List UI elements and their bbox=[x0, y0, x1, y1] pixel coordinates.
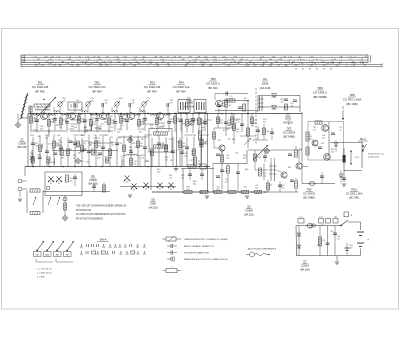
potentiometer note text bbox=[368, 153, 385, 159]
svg-text:(BA 218): (BA 218) bbox=[244, 213, 254, 216]
transistor TR2 symbol bbox=[69, 113, 76, 120]
arrow wiper 1 bbox=[33, 197, 36, 205]
tone pot arrows bbox=[350, 150, 360, 165]
component value labels bbox=[34, 118, 342, 247]
svg-text:68p: 68p bbox=[198, 163, 201, 165]
svg-text:C59: C59 bbox=[48, 144, 51, 146]
svg-text:4n7: 4n7 bbox=[313, 129, 316, 131]
oscillator coil box bbox=[68, 102, 82, 110]
svg-text:100: 100 bbox=[141, 157, 144, 159]
svg-text:C21: C21 bbox=[88, 130, 91, 132]
svg-text:(BC 548B): (BC 548B) bbox=[313, 95, 326, 99]
switch contact X5 bbox=[157, 183, 163, 191]
svg-text:10n: 10n bbox=[111, 144, 114, 146]
svg-text:R47: R47 bbox=[288, 167, 291, 169]
wire y150 right bbox=[248, 149, 302, 151]
transistor TR9 symbol bbox=[296, 163, 302, 170]
svg-text:10n: 10n bbox=[169, 177, 172, 179]
trimmer capacitor CT1 bbox=[57, 98, 66, 107]
svg-text:1k: 1k bbox=[122, 163, 124, 165]
transistor TR9a symbol bbox=[312, 140, 318, 146]
transistor TR10 symbol bbox=[324, 154, 331, 161]
svg-text:2k2: 2k2 bbox=[187, 189, 190, 191]
extra component labels bbox=[30, 115, 250, 164]
inductor detector L12 bbox=[258, 96, 264, 111]
svg-text:SK-C: SK-C bbox=[360, 137, 366, 141]
svg-text:R7: R7 bbox=[92, 118, 94, 120]
svg-text:4n7: 4n7 bbox=[188, 121, 191, 123]
svg-text:C22: C22 bbox=[177, 150, 180, 152]
wire mid rail a bbox=[30, 130, 66, 132]
svg-text:C67: C67 bbox=[105, 135, 108, 137]
svg-text:TR7: TR7 bbox=[287, 128, 292, 131]
transistor TR7 symbol bbox=[281, 172, 287, 179]
svg-text:C60: C60 bbox=[74, 127, 77, 129]
resistor R46 bbox=[226, 164, 229, 193]
switch contact X6 bbox=[168, 183, 174, 191]
detector wires bbox=[258, 96, 300, 113]
svg-text:22k: 22k bbox=[93, 124, 96, 126]
wire speaker return bbox=[344, 170, 362, 172]
wire drop x260 bbox=[263, 164, 265, 181]
svg-text:C77: C77 bbox=[317, 245, 320, 247]
ground speaker bbox=[342, 184, 346, 186]
wire vertical x151 bbox=[150, 151, 152, 191]
svg-text:4n7: 4n7 bbox=[191, 153, 194, 155]
scale numbers right bbox=[295, 69, 333, 71]
svg-text:1k: 1k bbox=[35, 120, 37, 122]
svg-text:R77: R77 bbox=[34, 129, 37, 131]
svg-text:CO 1402 B: CO 1402 B bbox=[303, 192, 315, 195]
svg-text:R64: R64 bbox=[82, 122, 85, 124]
svg-text:68p: 68p bbox=[243, 157, 246, 159]
svg-text:C22: C22 bbox=[98, 129, 101, 131]
diode D2 label bbox=[88, 175, 98, 186]
trimmer capacitor CT5 bbox=[189, 120, 195, 126]
wire vertical x182 bbox=[181, 118, 183, 167]
ceramic filter CF1 bbox=[149, 126, 172, 152]
svg-text:n15: n15 bbox=[181, 149, 184, 151]
svg-text:FM: FM bbox=[66, 254, 69, 256]
wire audio bottom rail bbox=[268, 191, 298, 193]
capacitor C39 bbox=[92, 183, 96, 192]
svg-text:(BC 548B): (BC 548B) bbox=[303, 196, 314, 199]
capacitor C52 bbox=[263, 150, 267, 162]
svg-text:TR9: TR9 bbox=[307, 189, 312, 192]
svg-text:1k: 1k bbox=[238, 121, 240, 123]
transistor TR2 label bbox=[89, 81, 106, 94]
svg-text:n15: n15 bbox=[117, 131, 120, 133]
component row 2 bbox=[31, 141, 206, 156]
svg-text:TR8: TR8 bbox=[349, 93, 355, 97]
legend brackets bbox=[36, 259, 73, 263]
svg-text:100: 100 bbox=[205, 143, 208, 145]
AM detector box bbox=[45, 172, 82, 196]
resistor R40 bbox=[184, 187, 192, 194]
svg-text:1k: 1k bbox=[340, 129, 342, 131]
svg-text:R61: R61 bbox=[183, 124, 186, 126]
wire osc vertical bbox=[301, 112, 303, 160]
capacitor C42 bbox=[180, 152, 188, 157]
transistor TR5 label bbox=[206, 77, 220, 90]
diode D6 symbol bbox=[339, 171, 343, 184]
svg-text:R42: R42 bbox=[226, 129, 229, 131]
svg-text:C73: C73 bbox=[224, 171, 227, 173]
svg-text:C55: C55 bbox=[235, 152, 238, 154]
svg-text:100: 100 bbox=[105, 102, 108, 104]
resistor R51 bbox=[294, 178, 297, 192]
svg-text:2 = M.W. (P.O.): 2 = M.W. (P.O.) bbox=[37, 273, 52, 275]
svg-text:C22: C22 bbox=[110, 127, 113, 129]
fuse box F4 bbox=[333, 217, 338, 224]
svg-text:C45: C45 bbox=[139, 132, 142, 134]
arrow wiper 3 bbox=[57, 197, 60, 205]
svg-text:100: 100 bbox=[254, 122, 257, 124]
resistor R42d bbox=[255, 190, 262, 193]
capacitor C61 bbox=[331, 133, 335, 135]
svg-text:3 = F.M.: 3 = F.M. bbox=[37, 277, 45, 279]
transistor TR6 symbol bbox=[219, 145, 225, 156]
svg-text:LE CIRCUIT EST REPRESENTE EN P: LE CIRCUIT EST REPRESENTE EN POSITION bbox=[76, 214, 126, 216]
svg-text:R41: R41 bbox=[84, 127, 87, 129]
resistor R31 bbox=[30, 211, 40, 214]
capacitor C71 bbox=[333, 226, 340, 256]
tuning gang arrow bbox=[38, 97, 56, 116]
svg-text:R15: R15 bbox=[203, 123, 206, 125]
transistor TR7 label bbox=[283, 128, 296, 139]
switch contact X2 bbox=[124, 176, 130, 184]
wire drop x238 bbox=[237, 164, 239, 193]
wire IF vertical bbox=[176, 114, 178, 167]
svg-text:C62: C62 bbox=[228, 125, 231, 127]
svg-text:10n: 10n bbox=[61, 157, 64, 159]
wire D2 row bbox=[43, 191, 110, 193]
svg-text:R24: R24 bbox=[76, 115, 79, 117]
svg-text:(BA 178): (BA 178) bbox=[17, 146, 27, 149]
capacitor C3 bbox=[74, 100, 80, 107]
svg-text:R32: R32 bbox=[80, 161, 83, 163]
svg-text:68p: 68p bbox=[193, 183, 196, 185]
legend ceramic capacitor bbox=[167, 244, 214, 248]
svg-text:C79: C79 bbox=[118, 137, 121, 139]
capacitor C34 bbox=[256, 126, 260, 140]
capacitor C50 bbox=[290, 180, 294, 182]
svg-text:C37: C37 bbox=[269, 185, 272, 187]
switch contact X3 bbox=[131, 184, 137, 192]
svg-text:C75: C75 bbox=[234, 119, 237, 121]
svg-text:47k: 47k bbox=[337, 238, 340, 240]
svg-text:CO TR2 L-M/A: CO TR2 L-M/A bbox=[343, 97, 362, 101]
svg-text:n15: n15 bbox=[281, 187, 284, 189]
svg-text:CO 1502 L-M/A: CO 1502 L-M/A bbox=[346, 192, 363, 195]
svg-text:R8: R8 bbox=[330, 231, 332, 233]
earphone jack socket bbox=[18, 179, 27, 197]
diode D8 label bbox=[148, 199, 157, 210]
transistor TR4 label bbox=[173, 81, 190, 94]
diode D5 symbol bbox=[272, 106, 277, 110]
transistor TR6 label bbox=[313, 86, 327, 99]
switch SK-C label bbox=[358, 137, 368, 141]
svg-text:100: 100 bbox=[162, 125, 165, 127]
svg-text:FM (FONCTIONNEMENT): FM (FONCTIONNEMENT) bbox=[76, 218, 103, 220]
diode D1 label bbox=[17, 139, 27, 150]
svg-text:C39: C39 bbox=[170, 160, 173, 162]
svg-text:C47: C47 bbox=[197, 123, 200, 125]
trimmer capacitor CT3 bbox=[114, 98, 123, 107]
wire left bottom rail bbox=[25, 166, 210, 168]
fuse box F1 bbox=[298, 217, 304, 224]
capacitor C55 bbox=[288, 154, 292, 156]
trimmer VC2 bbox=[56, 177, 62, 185]
svg-text:C30: C30 bbox=[57, 135, 60, 137]
svg-text:100: 100 bbox=[91, 100, 94, 102]
svg-text:(BA 218): (BA 218) bbox=[88, 183, 98, 186]
coupling coil L3 bbox=[82, 107, 87, 112]
legend electrical interference bbox=[246, 248, 277, 257]
svg-text:22k: 22k bbox=[104, 121, 107, 123]
resistor R42b bbox=[228, 190, 236, 193]
transistor TR3 label bbox=[144, 81, 161, 94]
svg-text:BF 494: BF 494 bbox=[92, 89, 101, 93]
capacitor C28 bbox=[200, 169, 204, 181]
svg-text:10n: 10n bbox=[73, 157, 76, 159]
capacitor C65 bbox=[342, 178, 346, 180]
wire vertical x183 bbox=[182, 169, 184, 191]
svg-text:1k: 1k bbox=[288, 123, 290, 125]
svg-text:C9: C9 bbox=[72, 141, 74, 143]
svg-text:D4: D4 bbox=[263, 77, 267, 81]
svg-text:2k2: 2k2 bbox=[309, 227, 312, 229]
svg-text:C23: C23 bbox=[59, 127, 62, 129]
fuse box F2 bbox=[319, 217, 324, 224]
wire drop x248 bbox=[247, 114, 249, 149]
svg-text:C39: C39 bbox=[86, 161, 89, 163]
switch contact X4 bbox=[143, 183, 149, 191]
svg-text:C52: C52 bbox=[109, 116, 112, 118]
svg-text:2k2: 2k2 bbox=[98, 145, 101, 147]
svg-text:n15: n15 bbox=[226, 157, 229, 159]
svg-text:1N60: 1N60 bbox=[262, 81, 269, 85]
bead L10 bbox=[307, 224, 316, 228]
wire AF mid rail bbox=[213, 163, 247, 165]
IF transformer T1 bbox=[178, 100, 190, 113]
volume potentiometer arrow bbox=[244, 138, 251, 145]
driver transformer T3 bbox=[269, 158, 277, 181]
capacitor C37 bbox=[270, 128, 274, 140]
svg-text:R33: R33 bbox=[68, 149, 71, 151]
svg-text:1k: 1k bbox=[202, 129, 204, 131]
resistor R50 bbox=[258, 168, 261, 176]
resistor R34 bbox=[216, 117, 223, 124]
wire TR9 collector bbox=[298, 150, 300, 163]
svg-text:POSITION FM: POSITION FM bbox=[76, 210, 91, 212]
diode D4 label bbox=[260, 77, 271, 90]
svg-text:2k2: 2k2 bbox=[97, 157, 100, 159]
svg-text:Potentiometer c/w: Potentiometer c/w bbox=[368, 153, 385, 156]
svg-text:R51: R51 bbox=[257, 157, 260, 159]
trimmer VC1 bbox=[48, 177, 54, 185]
diode D4 symbol bbox=[272, 94, 277, 98]
power socket bbox=[344, 212, 353, 217]
dial scale assembly bbox=[21, 55, 382, 67]
svg-text:n15: n15 bbox=[165, 159, 168, 161]
svg-text:C14: C14 bbox=[58, 140, 61, 142]
svg-text:47k: 47k bbox=[331, 151, 334, 153]
svg-text:4n7: 4n7 bbox=[244, 100, 247, 102]
transistor TR5 oscillator cluster bbox=[215, 92, 249, 115]
svg-text:22k: 22k bbox=[134, 163, 137, 165]
wire lower mid rail bbox=[120, 186, 176, 188]
svg-text:10n: 10n bbox=[181, 177, 184, 179]
svg-text:100: 100 bbox=[157, 171, 160, 173]
svg-text:1C6: 1C6 bbox=[319, 217, 322, 219]
svg-text:C15: C15 bbox=[321, 143, 324, 145]
wire TR9 to box bbox=[302, 166, 308, 168]
wire osc top bbox=[215, 110, 258, 112]
svg-text:2k2: 2k2 bbox=[70, 180, 73, 182]
svg-text:C5: C5 bbox=[89, 119, 91, 121]
svg-text:47k: 47k bbox=[109, 157, 112, 159]
svg-text:R6: R6 bbox=[77, 119, 79, 121]
svg-text:2k2: 2k2 bbox=[161, 145, 164, 147]
svg-text:R44: R44 bbox=[57, 144, 60, 146]
svg-text:CO630: CO630 bbox=[89, 179, 97, 182]
svg-text:CO 1502 C: CO 1502 C bbox=[206, 81, 220, 85]
switch SW-A label bbox=[97, 238, 109, 242]
resistor R37 bbox=[262, 124, 269, 140]
svg-text:SW-A: SW-A bbox=[100, 238, 107, 242]
capacitor C30 bbox=[217, 103, 225, 114]
svg-text:10n: 10n bbox=[217, 121, 220, 123]
transistor TR8 symbol bbox=[322, 125, 329, 132]
transistor TR5a symbol bbox=[157, 113, 164, 120]
capacitor C32 bbox=[224, 120, 231, 124]
jack circle SW bbox=[46, 186, 50, 190]
svg-text:CO 1502 C-D: CO 1502 C-D bbox=[89, 85, 106, 89]
resistor R21 bbox=[198, 131, 201, 140]
legend polyester capacitor bbox=[167, 251, 209, 255]
svg-text:C1: C1 bbox=[248, 141, 250, 143]
svg-text:TR5: TR5 bbox=[210, 77, 216, 81]
svg-text:47k: 47k bbox=[291, 105, 294, 107]
capacitor C36 bbox=[73, 174, 77, 186]
resistor R41 bbox=[200, 190, 208, 193]
svg-text:S: S bbox=[342, 106, 344, 110]
resistor R62 top bbox=[315, 121, 322, 124]
svg-text:POLYESTER CAPACITOR: POLYESTER CAPACITOR bbox=[184, 252, 209, 255]
svg-text:C45: C45 bbox=[140, 139, 143, 141]
wire audio mid vertical bbox=[328, 122, 330, 160]
antenna bbox=[19, 93, 28, 119]
wire drop x218b bbox=[212, 164, 214, 193]
resistor R36 bbox=[250, 117, 257, 124]
resistor R45 bbox=[246, 128, 249, 136]
resistor R29 on rail bbox=[188, 165, 196, 168]
svg-text:2k2: 2k2 bbox=[310, 138, 313, 140]
capacitor detector C84 bbox=[280, 99, 288, 103]
svg-text:TR2: TR2 bbox=[94, 81, 100, 85]
svg-text:CO600: CO600 bbox=[18, 142, 26, 145]
wire vertical x201 bbox=[201, 118, 203, 167]
svg-text:R8: R8 bbox=[38, 136, 40, 138]
legend wirewound resistor bbox=[163, 265, 181, 272]
svg-text:BLACK CERAMIC CAPACITOR: BLACK CERAMIC CAPACITOR bbox=[184, 245, 214, 248]
resistor R60 bbox=[306, 132, 313, 141]
resistor R26 bbox=[193, 157, 200, 165]
svg-text:TR1: TR1 bbox=[37, 81, 43, 85]
arrow wiper 2 bbox=[48, 197, 51, 205]
resistor R27 bbox=[200, 139, 207, 147]
wire volume loop bbox=[27, 191, 43, 214]
svg-text:R26: R26 bbox=[200, 140, 203, 142]
svg-text:CO 1402 B: CO 1402 B bbox=[283, 132, 296, 135]
electrolytic C72 bbox=[345, 243, 353, 256]
test point diamond TP5 bbox=[62, 215, 67, 220]
svg-text:220: 220 bbox=[350, 247, 353, 249]
svg-text:R48: R48 bbox=[245, 169, 248, 171]
svg-text:C81: C81 bbox=[334, 217, 337, 219]
capacitor C9 bbox=[129, 100, 135, 107]
resistor R28 bbox=[224, 98, 231, 114]
switch SK-C contacts bbox=[362, 143, 367, 169]
wire x255 up bbox=[254, 150, 256, 170]
svg-text:CARBON RESISTOR CO SERIES 5% (: CARBON RESISTOR CO SERIES 5% (OHMS) bbox=[184, 238, 228, 241]
resistor R30 bbox=[30, 189, 40, 192]
svg-text:220: 220 bbox=[63, 100, 66, 102]
svg-text:R40: R40 bbox=[51, 149, 54, 151]
test point diamond TP1 bbox=[15, 114, 20, 128]
svg-text:R71: R71 bbox=[143, 124, 146, 126]
trimmer capacitor CT2 bbox=[85, 98, 94, 107]
svg-text:1 = L.W. (G.O.): 1 = L.W. (G.O.) bbox=[37, 269, 52, 271]
note text bbox=[76, 205, 127, 221]
svg-text:22k: 22k bbox=[52, 121, 55, 123]
diode D7a bbox=[297, 226, 301, 256]
wire TR7 base bbox=[277, 170, 281, 172]
wire seg b bbox=[139, 156, 141, 167]
svg-text:CO600: CO600 bbox=[185, 102, 194, 105]
wire AF bottom rail bbox=[152, 191, 268, 193]
transistor TR10 label bbox=[346, 189, 363, 200]
junction dots bbox=[32, 113, 266, 193]
svg-text:SW: SW bbox=[56, 254, 59, 256]
wire sub rail bbox=[52, 150, 118, 152]
svg-text:R64: R64 bbox=[38, 154, 41, 156]
svg-text:BF 494: BF 494 bbox=[147, 89, 156, 93]
resistor R42c bbox=[242, 187, 249, 194]
svg-text:ELECTRICAL INTERFERENCE: ELECTRICAL INTERFERENCE bbox=[248, 248, 277, 251]
capacitor detector C86 bbox=[290, 100, 297, 107]
coupling coil L2 bbox=[54, 107, 59, 112]
capacitor C60 bbox=[318, 143, 324, 149]
wire vertical drops row 2 bbox=[33, 134, 201, 166]
capacitor C48 bbox=[216, 176, 220, 178]
svg-text:1C5: 1C5 bbox=[299, 217, 302, 219]
svg-text:R34: R34 bbox=[30, 135, 33, 137]
diode D7 label bbox=[300, 261, 310, 272]
antenna coupling bbox=[27, 114, 29, 119]
svg-text:TR6: TR6 bbox=[317, 86, 323, 90]
audio amplifier outline bbox=[308, 122, 344, 161]
svg-text:THE CIRCUIT DIAGRAM HAS BEEN D: THE CIRCUIT DIAGRAM HAS BEEN DRAWN IN bbox=[76, 205, 127, 208]
wire audio out bbox=[330, 142, 363, 144]
diode D5 label bbox=[283, 114, 293, 125]
wire stubs above rail bbox=[60, 107, 200, 114]
svg-text:220: 220 bbox=[35, 145, 38, 147]
transistor TR1 symbol bbox=[41, 113, 48, 120]
svg-text:10n: 10n bbox=[251, 125, 254, 127]
resistor R52 bbox=[294, 146, 297, 157]
